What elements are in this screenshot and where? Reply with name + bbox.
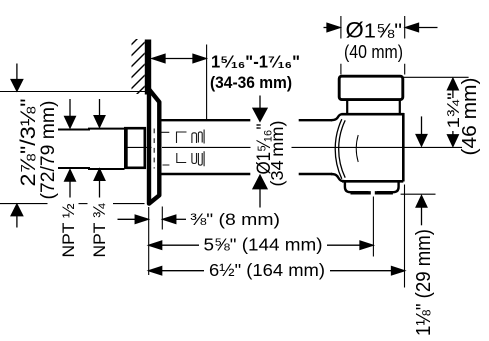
svg-text:(34 mm): (34 mm): [267, 121, 287, 187]
svg-text:Ø1⅝": Ø1⅝": [346, 18, 403, 43]
svg-text:(40 mm): (40 mm): [344, 42, 403, 62]
svg-text:1⁵⁄₁₆"-1⁷⁄₁₆": 1⁵⁄₁₆"-1⁷⁄₁₆": [211, 52, 300, 72]
svg-text:6½" (164 mm): 6½" (164 mm): [209, 260, 325, 280]
svg-text:(34-36 mm): (34-36 mm): [210, 74, 292, 92]
svg-text:5⅝" (144 mm): 5⅝" (144 mm): [204, 234, 323, 254]
svg-text:⅜" (8 mm): ⅜" (8 mm): [190, 210, 280, 229]
svg-text:(46 mm): (46 mm): [458, 78, 481, 156]
svg-text:NPT ½: NPT ½: [60, 203, 78, 257]
svg-text:1⅛" (29 mm): 1⅛" (29 mm): [413, 229, 435, 336]
svg-text:(72/79 mm): (72/79 mm): [37, 101, 59, 200]
svg-text:NPT ¾: NPT ¾: [91, 203, 109, 257]
